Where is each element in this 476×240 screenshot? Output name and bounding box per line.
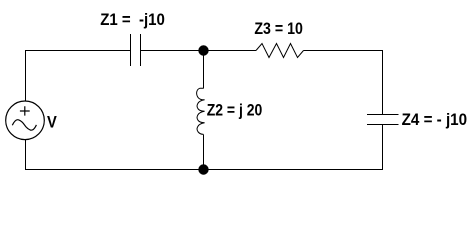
- svg-text:Z1 = -j10: Z1 = -j10: [100, 11, 165, 29]
- svg-text:Z4 = - j10: Z4 = - j10: [402, 111, 468, 129]
- inductor L Z2: [197, 88, 205, 134]
- wire node A to resistor Z3: [204, 50, 257, 52]
- wire bottom (right corner to node B): [204, 169, 383, 171]
- resistor R Z3: [256, 44, 304, 58]
- wire top middle (Z1 to node A): [141, 50, 204, 52]
- wire bottom (node B to bottom-left corner): [26, 169, 204, 171]
- node A (top junction dot): [198, 45, 208, 55]
- node B (bottom junction dot): [198, 164, 208, 174]
- wire node A down to inductor: [203, 51, 205, 89]
- capacitor C Z1: [131, 34, 141, 66]
- wire right rail top (corner to Z4): [382, 50, 384, 115]
- wire left rail bottom (corner to source): [25, 140, 27, 170]
- capacitor C Z4: [367, 115, 399, 125]
- wire resistor to top-right corner: [304, 50, 383, 52]
- svg-text:Z2 = j 20: Z2 = j 20: [207, 102, 263, 120]
- svg-text:Z3 = 10: Z3 = 10: [254, 20, 303, 38]
- wire inductor down to node B: [203, 134, 205, 169]
- voltage source V1: [6, 101, 45, 140]
- wire right rail bottom (Z4 to bottom-right corner): [382, 125, 384, 171]
- wire top left (corner to Z1): [26, 50, 131, 52]
- wire left rail top (source to top-left corner): [25, 50, 27, 101]
- svg-text:V: V: [47, 112, 57, 131]
